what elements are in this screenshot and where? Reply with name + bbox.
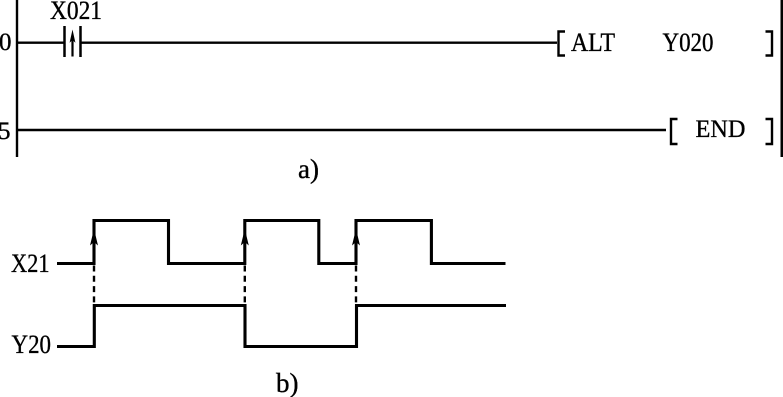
- instruction ALT mnemonic: [571, 28, 615, 57]
- svg-text:X021: X021: [50, 0, 102, 25]
- instruction END open bracket: [671, 119, 678, 144]
- arrow rising edge 2: [241, 229, 249, 246]
- svg-text:Y20: Y20: [12, 329, 52, 359]
- label X021: [50, 0, 102, 25]
- arrow rising edge 3: [352, 229, 360, 246]
- right power rail: [780, 0, 783, 157]
- svg-text:0: 0: [0, 29, 12, 56]
- svg-text:ALT: ALT: [571, 28, 615, 57]
- svg-text:X21: X21: [11, 248, 50, 278]
- caption a): [298, 154, 319, 184]
- label X21: [11, 248, 50, 278]
- instruction ALT Y020 open bracket: [559, 32, 566, 56]
- svg-text:5: 5: [0, 118, 11, 145]
- Y20 waveform: [57, 306, 506, 347]
- X21 waveform: [57, 221, 506, 264]
- instruction ALT Y020 close bracket: [766, 32, 773, 56]
- contact X021 rising-edge pulse contact: [65, 26, 81, 57]
- svg-text:Y020: Y020: [663, 28, 714, 57]
- rung number 0: [0, 29, 12, 56]
- dashed line edge 1: [93, 266, 95, 305]
- wire rung 0 right segment: [82, 42, 558, 44]
- arrow rising edge 1: [90, 229, 98, 246]
- svg-text:END: END: [696, 116, 746, 143]
- wire rung 5: [17, 129, 666, 131]
- wire rung 0 left segment: [17, 42, 64, 44]
- label Y20: [12, 329, 52, 359]
- instruction END mnemonic: [696, 116, 746, 143]
- dashed line edge 2: [244, 266, 246, 305]
- instruction operand Y020: [663, 28, 714, 57]
- caption b): [276, 368, 299, 397]
- instruction END close bracket: [766, 119, 773, 144]
- left power rail: [16, 0, 18, 157]
- dashed line edge 3: [355, 266, 357, 305]
- rung number 5: [0, 118, 11, 145]
- svg-text:b): b): [276, 368, 299, 397]
- svg-text:a): a): [298, 154, 319, 184]
